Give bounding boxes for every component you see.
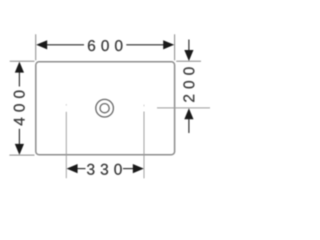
extension line left for 330 (dot) <box>65 104 67 105</box>
dimension line 400 <box>18 72 20 86</box>
tap hole outer circle <box>96 99 114 117</box>
dimension line 600 <box>47 44 84 46</box>
centre line of basin hole extended right for 200 <box>157 107 210 109</box>
label 200 (rotated) <box>183 67 194 101</box>
arrowhead 330 left <box>67 164 78 173</box>
label 330 <box>87 164 122 175</box>
arrowhead 400 up <box>15 62 24 73</box>
arrowhead 400 down <box>15 144 24 155</box>
label 400 (rotated) <box>14 91 25 126</box>
extension line top for 400 <box>10 60 35 62</box>
washbasin outline (top view rectangle) <box>36 62 175 155</box>
extension line left for 330 <box>65 112 67 178</box>
dimension line 200 lower tail <box>188 119 190 133</box>
arrowhead 330 right <box>133 164 144 173</box>
extension line right for 600 <box>174 34 176 60</box>
dimension line 330 <box>77 168 85 170</box>
arrowhead 200 down (pointing to top edge) <box>184 50 193 61</box>
extension line bottom for 400 <box>9 154 34 156</box>
label 600 <box>88 40 122 51</box>
arrowhead 600 right <box>163 40 174 49</box>
tap hole inner circle <box>100 104 109 113</box>
arrowhead 600 left <box>36 40 47 49</box>
extension line right for 330 (dot) <box>143 105 145 107</box>
arrowhead 200 up (pointing to centre line) <box>184 108 193 119</box>
dimension line 200 upper tail <box>188 40 190 52</box>
extension line right for 330 <box>143 112 145 179</box>
extension line top-right for 200 <box>176 60 201 62</box>
extension line left for 600 <box>35 34 37 60</box>
